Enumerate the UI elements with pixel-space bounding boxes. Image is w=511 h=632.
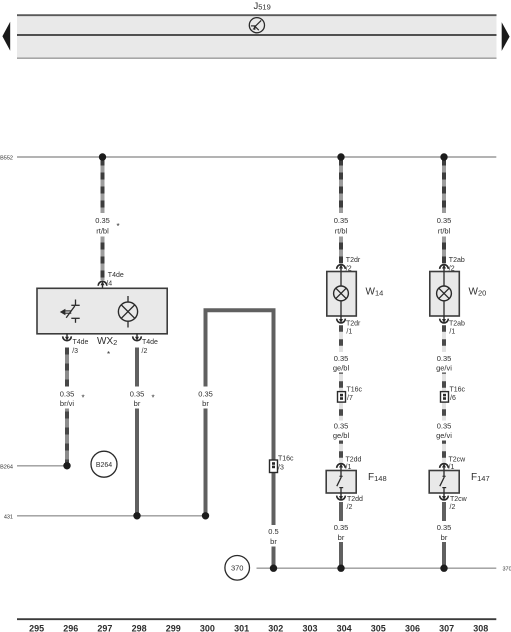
svg-text:0.5: 0.5	[268, 527, 278, 536]
svg-text:W14: W14	[366, 287, 384, 298]
svg-text:rt/bl: rt/bl	[335, 226, 348, 235]
svg-text:br: br	[441, 533, 448, 542]
svg-text:297: 297	[97, 624, 112, 632]
svg-text:0.35: 0.35	[334, 523, 349, 532]
svg-text:T16c: T16c	[347, 387, 363, 394]
svg-text:br: br	[270, 537, 277, 546]
svg-text:ge/bl: ge/bl	[333, 431, 350, 440]
svg-text:T2ab: T2ab	[449, 320, 465, 327]
svg-text:T4de: T4de	[73, 339, 89, 346]
svg-text:T2cw: T2cw	[449, 456, 467, 463]
svg-text:298: 298	[132, 624, 147, 632]
svg-text:*: *	[82, 394, 85, 403]
svg-text:300: 300	[200, 624, 215, 632]
svg-text:T2cw: T2cw	[450, 496, 468, 503]
svg-text:T4de: T4de	[108, 272, 124, 279]
svg-text:T16c: T16c	[450, 387, 466, 394]
svg-text:370: 370	[231, 564, 244, 573]
svg-text:*: *	[117, 222, 120, 231]
svg-text:T16c: T16c	[278, 456, 294, 463]
svg-text:rt/bl: rt/bl	[438, 226, 451, 235]
svg-text:ge/bl: ge/bl	[333, 363, 350, 372]
svg-text:/3: /3	[72, 348, 78, 355]
svg-text:*: *	[107, 350, 110, 359]
svg-text:295: 295	[29, 624, 44, 632]
svg-text:F147: F147	[471, 472, 490, 483]
svg-text:/6: /6	[450, 395, 456, 402]
svg-text:302: 302	[268, 624, 283, 632]
svg-text:ge/vi: ge/vi	[436, 363, 452, 372]
svg-text:WX2: WX2	[97, 336, 117, 347]
svg-text:306: 306	[405, 624, 420, 632]
svg-text:296: 296	[63, 624, 78, 632]
svg-text:rt/bl: rt/bl	[96, 226, 109, 235]
svg-text:0.35: 0.35	[198, 389, 213, 398]
svg-text:B264: B264	[96, 462, 112, 469]
svg-text:0.35: 0.35	[437, 523, 452, 532]
svg-text:W20: W20	[469, 287, 487, 298]
svg-text:0.35: 0.35	[437, 354, 452, 363]
svg-text:T4de: T4de	[142, 339, 158, 346]
svg-text:301: 301	[234, 624, 249, 632]
svg-text:/2: /2	[450, 504, 456, 511]
svg-text:305: 305	[371, 624, 386, 632]
svg-text:0.35: 0.35	[334, 216, 349, 225]
svg-text:br: br	[202, 399, 209, 408]
svg-text:304: 304	[337, 624, 352, 632]
svg-text:B264: B264	[0, 464, 13, 470]
svg-text:0.35: 0.35	[60, 389, 75, 398]
svg-text:/1: /1	[449, 329, 455, 336]
svg-text:T2ab: T2ab	[449, 257, 465, 264]
svg-text:br/vi: br/vi	[60, 399, 75, 408]
svg-text:F148: F148	[368, 472, 387, 483]
svg-text:br: br	[338, 533, 345, 542]
svg-text:/2: /2	[142, 348, 148, 355]
svg-text:431: 431	[4, 514, 13, 520]
svg-text:br: br	[134, 399, 141, 408]
svg-text:308: 308	[473, 624, 488, 632]
svg-text:B552: B552	[0, 156, 13, 162]
svg-text:0.35: 0.35	[334, 422, 349, 431]
svg-text:/3: /3	[278, 465, 284, 472]
svg-text:T2dr: T2dr	[346, 257, 361, 264]
svg-text:0.35: 0.35	[437, 216, 452, 225]
svg-text:0.35: 0.35	[130, 389, 145, 398]
svg-text:/4: /4	[106, 281, 112, 288]
svg-text:/1: /1	[346, 329, 352, 336]
svg-text:/7: /7	[347, 395, 353, 402]
svg-text:J519: J519	[254, 1, 271, 12]
svg-text:0.35: 0.35	[95, 216, 110, 225]
svg-text:T2dd: T2dd	[346, 456, 362, 463]
svg-text:370: 370	[503, 567, 511, 573]
svg-text:307: 307	[439, 624, 454, 632]
svg-text:299: 299	[166, 624, 181, 632]
svg-text:/2: /2	[347, 504, 353, 511]
svg-text:*: *	[152, 394, 155, 403]
svg-text:303: 303	[302, 624, 317, 632]
svg-text:ge/vi: ge/vi	[436, 431, 452, 440]
svg-text:0.35: 0.35	[334, 354, 349, 363]
svg-text:T2dr: T2dr	[346, 320, 361, 327]
svg-text:0.35: 0.35	[437, 422, 452, 431]
svg-text:T2dd: T2dd	[347, 496, 363, 503]
